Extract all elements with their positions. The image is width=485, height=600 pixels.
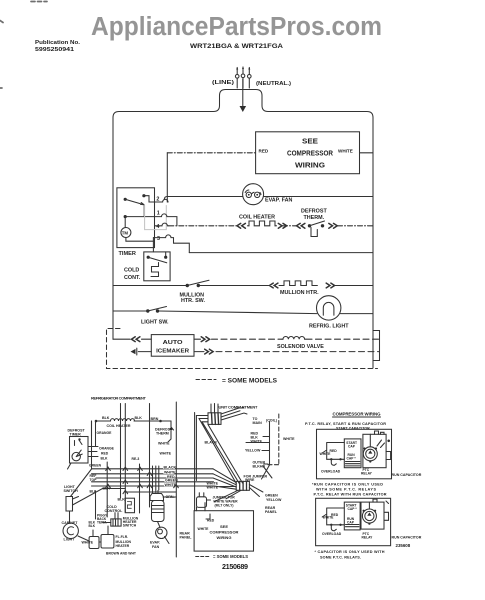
- defrost thermostat disconnect arrows left: [297, 223, 305, 228]
- cold control (layout): [125, 498, 134, 513]
- svg-text:BLACK: BLACK: [164, 466, 177, 470]
- coil heater disconnect arrows left: [237, 223, 245, 228]
- svg-text:(MLT ONLY): (MLT ONLY): [215, 504, 234, 508]
- note: run capacitor only used: [312, 483, 383, 492]
- box2 terminals: [373, 499, 389, 520]
- label DEFROST THERM.: [301, 209, 327, 222]
- cold control COLD CONT.: [144, 241, 170, 281]
- refrigerator light bulb REFRIG. LIGHT: [317, 296, 341, 320]
- defrost timer TIMER box: [117, 188, 166, 248]
- svg-text:MAIN: MAIN: [253, 421, 263, 425]
- timer terminal numbers: [156, 197, 160, 243]
- svg-text:AUTO: AUTO: [163, 340, 183, 346]
- mullion heater wire: [113, 285, 373, 287]
- service cord plug (layout): [197, 493, 211, 508]
- connector 1 top stubs: [211, 404, 218, 413]
- left rail lower corner into icemaker line: [112, 333, 114, 339]
- svg-text:HEATER: HEATER: [116, 544, 130, 548]
- svg-text:CAP *: CAP *: [348, 507, 358, 511]
- refrigerator light wire: [113, 311, 373, 314]
- svg-text:Publication No.: Publication No.: [35, 40, 80, 46]
- svg-text:EVAP. FAN: EVAP. FAN: [265, 198, 292, 204]
- svg-text:RUN CAPACITOR: RUN CAPACITOR: [392, 536, 422, 540]
- svg-text:COLD: COLD: [124, 268, 139, 274]
- svg-text:COMPRESSOR: COMPRESSOR: [287, 151, 333, 158]
- main vertical harness wires (layout): [92, 404, 150, 508]
- svg-text:P.T.C. RELAY WITH RUN CAPACITO: P.T.C. RELAY WITH RUN CAPACITOR: [314, 492, 387, 496]
- defrost timer body (layout): [68, 437, 89, 470]
- svg-text:BROWN AND WHT: BROWN AND WHT: [106, 552, 137, 556]
- main circuit border (rails) with cord bump: [113, 90, 373, 369]
- coil heater disconnect arrows right: [278, 223, 286, 228]
- some-models dashed enclosure right bracket: [373, 331, 380, 361]
- mullion heater element: [279, 281, 317, 286]
- svg-text:RE-3: RE-3: [132, 457, 140, 461]
- svg-text:5995250941: 5995250941: [35, 47, 74, 53]
- icemaker lower lead with plug symbol: [137, 348, 152, 355]
- svg-text:= SOME MODELS: = SOME MODELS: [213, 554, 248, 559]
- svg-text:REFRIG. LIGHT: REFRIG. LIGHT: [309, 324, 349, 330]
- box1 ptc relay enclosure: [361, 434, 386, 475]
- svg-text:(COIL): (COIL): [266, 419, 278, 423]
- mullion heater switch MULLION HTR. SW.: [186, 280, 209, 287]
- piggy back terminal labels: [89, 514, 108, 529]
- to-main labels: [245, 417, 295, 469]
- detail box 1: [317, 429, 392, 479]
- harness connector 2: [236, 481, 249, 490]
- svg-text:RUN CAPACITOR: RUN CAPACITOR: [392, 473, 422, 477]
- svg-text:WHITE: WHITE: [158, 442, 170, 446]
- svg-text:COIL HEATER: COIL HEATER: [107, 424, 131, 428]
- svg-text:SEE: SEE: [220, 524, 228, 529]
- interconnect wires right column: [246, 422, 270, 466]
- box2 ptc relay enclosure: [361, 502, 384, 540]
- connector 1 leads to unit side: [221, 408, 247, 420]
- svg-text:BLK: BLK: [89, 524, 96, 528]
- svg-text:235608: 235608: [396, 543, 411, 548]
- bus convergence into connector 2: [213, 469, 236, 489]
- svg-text:TM: TM: [122, 231, 129, 236]
- lower wire to right bracket (dashed): [216, 351, 380, 353]
- auto icemaker box: [151, 335, 194, 357]
- timer motor TM: [121, 228, 131, 238]
- svg-text:BLK: BLK: [101, 457, 109, 461]
- compressor WHITE return wire: [360, 152, 374, 154]
- svg-text:CAP *: CAP *: [347, 457, 357, 461]
- SEE COMPRESSOR WIRING box: [256, 132, 360, 174]
- defrost timer leads: [88, 421, 98, 457]
- bus drop wires: [96, 445, 177, 519]
- svg-text:WIRING: WIRING: [295, 163, 326, 170]
- svg-text:COMPRESSOR: COMPRESSOR: [210, 530, 239, 535]
- unit compartment boundary (dash): [268, 414, 279, 465]
- terminal 2 internal wire: [144, 196, 155, 202]
- box1 start capacitor: [344, 439, 361, 468]
- timer terminal 3 wire to right rail: [189, 252, 373, 254]
- evap fan motor (layout): [150, 491, 169, 544]
- evap fan motor EVAP. FAN: [243, 184, 264, 205]
- svg-text:PANEL: PANEL: [180, 536, 193, 540]
- junction chevrons on harness: [106, 467, 179, 494]
- svg-text:FAN: FAN: [152, 545, 160, 549]
- svg-text:CONT.: CONT.: [124, 275, 141, 281]
- mullion heater disconnect arrows right: [326, 283, 334, 288]
- svg-text:BLK: BLK: [118, 498, 126, 502]
- svg-text:RELAY: RELAY: [362, 536, 374, 540]
- svg-text:BLK: BLK: [102, 416, 110, 420]
- svg-text:= SOME MODELS: = SOME MODELS: [222, 378, 277, 385]
- svg-text:HTR. SW.: HTR. SW.: [181, 298, 205, 304]
- node: vertical feed from red wire to timer terminal 2: [166, 153, 168, 202]
- svg-text:3: 3: [157, 236, 160, 242]
- note: capacitor only used: [315, 550, 385, 559]
- svg-text:THERM: THERM: [156, 432, 169, 436]
- svg-text:AppliancePartsPros.com: AppliancePartsPros.com: [91, 13, 382, 41]
- svg-text:CAP: CAP: [347, 520, 355, 524]
- svg-text:WIRE: WIRE: [245, 478, 255, 482]
- cam trace (faint): [145, 206, 167, 230]
- svg-text:RED: RED: [331, 513, 339, 517]
- svg-text:PANEL: PANEL: [265, 510, 278, 514]
- icemaker feed wire: [113, 338, 130, 340]
- svg-text:BLK: BLK: [103, 487, 111, 491]
- svg-text:CAP: CAP: [348, 444, 356, 448]
- some-models dashed enclosure left bracket: [107, 329, 378, 369]
- wire solenoid to right bracket (dashed): [306, 338, 380, 340]
- wire to solenoid (dashed): [212, 338, 283, 340]
- svg-text:BRN: BRN: [151, 417, 159, 421]
- compressor RED feed wire (dash-dot): [167, 152, 255, 154]
- harness diagonal bundle: [199, 419, 243, 484]
- svg-text:CONTROL: CONTROL: [105, 509, 124, 513]
- junction arc at feed/evap: [164, 197, 167, 200]
- title COMPRESSOR WIRING: [333, 412, 382, 417]
- svg-text:OVERLOAD: OVERLOAD: [321, 470, 341, 474]
- harness drop verticals: [195, 413, 197, 511]
- svg-text:(NEUTRAL.): (NEUTRAL.): [256, 81, 291, 87]
- svg-text:EVAP.: EVAP.: [150, 541, 160, 545]
- rear panel line + label: [175, 402, 177, 557]
- defrost thermostat disconnect arrows right: [329, 223, 337, 228]
- defrost thermostat (layout): [168, 421, 174, 442]
- harness bus wires with color labels: [92, 469, 215, 492]
- svg-text:THERM.: THERM.: [304, 215, 325, 221]
- publication number block: [35, 40, 80, 53]
- supply entry arrow: [240, 79, 247, 112]
- jumper wire labels: [244, 474, 282, 514]
- svg-text:WHITE: WHITE: [160, 452, 172, 456]
- terminal 2 connector bump: [155, 199, 169, 202]
- terminal 3 connector bump + step wire: [153, 235, 189, 253]
- svg-text:DEFROST: DEFROST: [301, 209, 327, 215]
- svg-text:RED: RED: [207, 519, 215, 523]
- svg-text:ICEMAKER: ICEMAKER: [156, 349, 189, 355]
- wire to defrost thermostat (dash-dot): [283, 225, 297, 227]
- svg-text:YELLOW: YELLOW: [245, 449, 261, 453]
- cabinet light (layout): [62, 521, 79, 542]
- coil heater element (layout): [95, 419, 171, 423]
- svg-text:WHITE: WHITE: [207, 486, 219, 490]
- svg-text:SEE: SEE: [302, 139, 318, 146]
- svg-text:WIRING: WIRING: [217, 535, 232, 540]
- svg-text:WITH SOME P.T.C. RELAYS: WITH SOME P.T.C. RELAYS: [316, 487, 376, 491]
- svg-text:RELAY: RELAY: [361, 472, 373, 476]
- label DEFROST TIMER (layout): [68, 429, 86, 437]
- svg-text:*RUN CAPACITOR IS ONLY USED: *RUN CAPACITOR IS ONLY USED: [312, 483, 383, 487]
- coil heater feed wire (dash-dot): [169, 225, 237, 227]
- wire to right rail (dash-dot): [338, 225, 374, 227]
- power cord plug prongs: [235, 66, 251, 88]
- svg-text:TIMER: TIMER: [119, 251, 136, 257]
- terminal 1 internal wire + wiper drop: [125, 206, 154, 217]
- svg-text:REFRIGERATOR COMPARTMENT: REFRIGERATOR COMPARTMENT: [91, 396, 147, 401]
- svg-text:TIMER: TIMER: [70, 433, 82, 437]
- svg-text:GREEN: GREEN: [89, 464, 102, 468]
- svg-text:2150689: 2150689: [222, 562, 248, 571]
- label COLD CONT.: [124, 268, 141, 282]
- mullion heater (layout): [89, 526, 114, 549]
- svg-text:LIGHT SW.: LIGHT SW.: [141, 320, 169, 326]
- icemaker return arrows right: [194, 338, 201, 340]
- legend = SOME MODELS (layout): [196, 556, 210, 558]
- box2 start capacitor: [344, 502, 360, 530]
- svg-text:WRT21BGA & WRT21FGA: WRT21BGA & WRT21FGA: [190, 43, 283, 50]
- svg-text:RED: RED: [101, 452, 109, 456]
- svg-text:MULLION HTR.: MULLION HTR.: [280, 290, 319, 296]
- svg-text:COIL HEATER: COIL HEATER: [239, 215, 275, 221]
- terminal 4 connector bump: [155, 223, 169, 226]
- svg-text:SWITCH: SWITCH: [123, 524, 137, 528]
- svg-text:WHITE: WHITE: [283, 437, 295, 441]
- svg-text:* CAPACITOR IS ONLY USED WITH: * CAPACITOR IS ONLY USED WITH: [315, 550, 385, 554]
- light switch (layout): [64, 485, 79, 493]
- svg-text:ORANGE: ORANGE: [99, 447, 115, 451]
- icemaker lower return arrows: [194, 351, 204, 353]
- jumper note: [213, 496, 239, 508]
- detail box 2: [316, 498, 391, 545]
- box2 white lead + overload: [322, 502, 369, 531]
- connector 1 leads to harness drop: [196, 416, 208, 422]
- solenoid valve coil SOLENOID VALVE: [282, 337, 306, 340]
- svg-text:WHITE: WHITE: [198, 527, 210, 531]
- svg-text:(LINE): (LINE): [212, 80, 234, 86]
- timer contact dots: [124, 194, 146, 218]
- box1 terminals top right: [375, 431, 391, 460]
- terminal 1 connector bump + wire: [155, 214, 177, 226]
- svg-text:WHITE: WHITE: [82, 541, 94, 545]
- coil heater element: [248, 221, 277, 226]
- svg-text:FL.FLR.: FL.FLR.: [116, 535, 129, 539]
- svg-text:OVERLOAD: OVERLOAD: [322, 532, 342, 536]
- svg-text:WHITE: WHITE: [338, 149, 353, 154]
- svg-text:ORANGE: ORANGE: [97, 431, 113, 435]
- svg-text:BLK: BLK: [135, 416, 143, 420]
- svg-text:RED: RED: [330, 449, 338, 453]
- scan artifact dots top-left: [0, 2, 47, 89]
- harness connector 1 (to unit compartment): [208, 413, 221, 425]
- box1 white lead + overload: [322, 434, 370, 465]
- evap fan wire: [167, 196, 373, 198]
- svg-text:SOME P.T.C. RELAYS.: SOME P.T.C. RELAYS.: [320, 555, 361, 559]
- svg-text:YELLOW: YELLOW: [266, 498, 282, 502]
- icemaker disconnect arrows left: [132, 337, 140, 342]
- legend = SOME MODELS: [196, 379, 216, 381]
- light switch LIGHT SW.: [146, 307, 166, 313]
- mullion heater switch (layout): [103, 498, 126, 526]
- leads from connector 2: [214, 485, 263, 502]
- see compressor wiring box (layout): [194, 503, 253, 551]
- svg-text:COMPRESSOR WIRING: COMPRESSOR WIRING: [333, 412, 382, 417]
- svg-text:1: 1: [157, 211, 160, 217]
- defrost thermostat switch: [308, 221, 325, 237]
- timer wiper blade: [125, 199, 144, 204]
- svg-text:RED: RED: [259, 149, 269, 154]
- svg-text:GREEN: GREEN: [265, 494, 278, 498]
- mullion heater disconnect arrows left: [270, 283, 278, 288]
- svg-text:4: 4: [156, 224, 159, 230]
- svg-text:SOLENOID VALVE: SOLENOID VALVE: [277, 344, 324, 350]
